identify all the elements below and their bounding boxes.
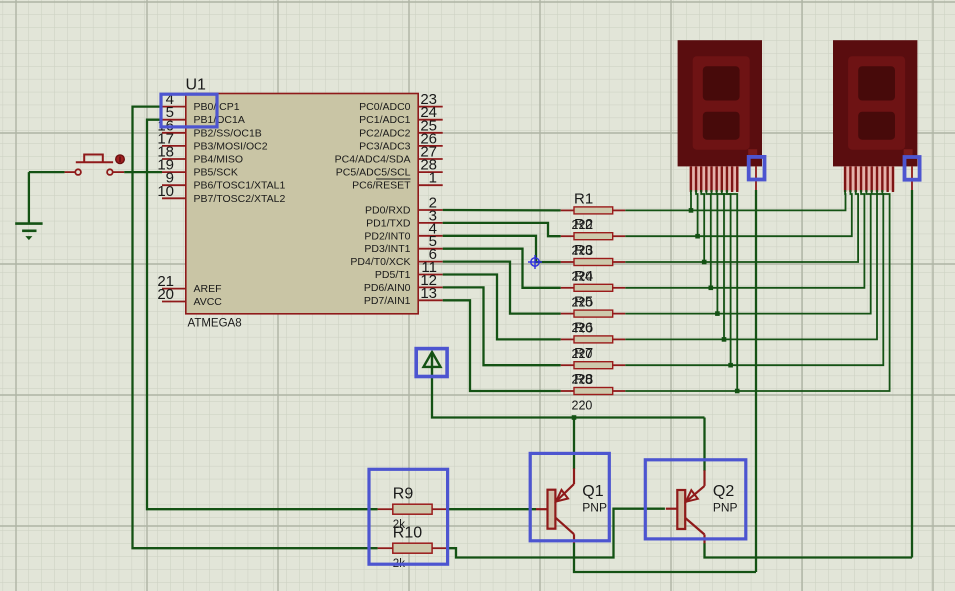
- svg-text:PD4/T0/XCK: PD4/T0/XCK: [350, 256, 410, 268]
- svg-text:10: 10: [157, 183, 174, 200]
- svg-text:PB3/MOSI/OC2: PB3/MOSI/OC2: [194, 140, 268, 152]
- svg-text:13: 13: [420, 285, 437, 302]
- svg-text:PB2/SS/OC1B: PB2/SS/OC1B: [194, 127, 262, 139]
- svg-text:PC2/ADC2: PC2/ADC2: [359, 127, 411, 139]
- svg-text:PB7/TOSC2/XTAL2: PB7/TOSC2/XTAL2: [194, 193, 286, 205]
- svg-text:1: 1: [429, 170, 437, 187]
- svg-text:PNP: PNP: [713, 501, 738, 515]
- svg-text:PC6/RESET: PC6/RESET: [352, 180, 411, 192]
- svg-text:R10: R10: [393, 525, 422, 542]
- svg-text:Q2: Q2: [713, 483, 734, 500]
- svg-text:PC5/ADC5/SCL: PC5/ADC5/SCL: [336, 167, 411, 179]
- svg-text:PD0/RXD: PD0/RXD: [365, 205, 411, 217]
- svg-text:R4: R4: [574, 268, 593, 285]
- svg-text:PB6/TOSC1/XTAL1: PB6/TOSC1/XTAL1: [194, 180, 286, 192]
- svg-text:AVCC: AVCC: [194, 296, 223, 308]
- svg-text:PD6/AIN0: PD6/AIN0: [364, 282, 411, 294]
- svg-text:R6: R6: [574, 319, 593, 336]
- svg-text:PNP: PNP: [582, 501, 607, 515]
- svg-text:R8: R8: [574, 371, 593, 388]
- svg-text:PC3/ADC3: PC3/ADC3: [359, 140, 411, 152]
- svg-text:PC0/ADC0: PC0/ADC0: [359, 101, 411, 113]
- svg-text:PD5/T1: PD5/T1: [375, 269, 411, 281]
- svg-text:Q1: Q1: [582, 483, 603, 500]
- svg-text:20: 20: [157, 286, 174, 303]
- svg-text:R2: R2: [574, 216, 593, 233]
- svg-text:AREF: AREF: [194, 283, 222, 295]
- svg-text:R1: R1: [574, 190, 593, 207]
- svg-text:PD1/TXD: PD1/TXD: [366, 217, 411, 229]
- svg-text:PD3/INT1: PD3/INT1: [364, 243, 410, 255]
- svg-text:PB5/SCK: PB5/SCK: [194, 167, 238, 179]
- svg-text:PD7/AIN1: PD7/AIN1: [364, 295, 411, 307]
- svg-text:R3: R3: [574, 242, 593, 259]
- svg-text:R7: R7: [574, 345, 593, 362]
- svg-text:220: 220: [572, 399, 593, 413]
- svg-text:PC4/ADC4/SDA: PC4/ADC4/SDA: [335, 154, 411, 166]
- svg-text:ATMEGA8: ATMEGA8: [188, 318, 242, 330]
- svg-text:U1: U1: [186, 77, 207, 94]
- svg-text:R9: R9: [393, 486, 414, 503]
- svg-text:PC1/ADC1: PC1/ADC1: [359, 114, 411, 126]
- svg-text:PB4/MISO: PB4/MISO: [194, 154, 244, 166]
- svg-text:PB1/OC1A: PB1/OC1A: [194, 114, 245, 126]
- svg-text:PD2/INT0: PD2/INT0: [364, 230, 410, 242]
- svg-text:R5: R5: [574, 294, 593, 311]
